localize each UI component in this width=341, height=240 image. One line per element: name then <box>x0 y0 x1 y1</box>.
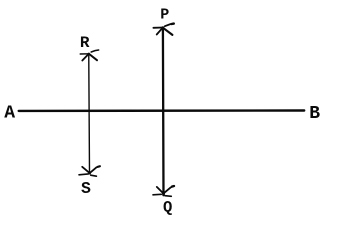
wire: perpendicular RS <box>88 54 91 173</box>
svg-text:Q: Q <box>163 199 172 217</box>
wire: perpendicular PQ <box>162 28 165 196</box>
node R arc mark <box>80 50 98 61</box>
svg-text:B: B <box>309 104 320 124</box>
svg-text:R: R <box>80 34 90 52</box>
node P arc mark <box>153 24 173 35</box>
svg-text:P: P <box>160 7 169 24</box>
svg-text:A: A <box>4 103 15 123</box>
line AB <box>19 109 305 112</box>
svg-text:S: S <box>81 179 91 198</box>
node Q arc mark <box>153 186 174 196</box>
node S arc mark <box>79 166 100 176</box>
